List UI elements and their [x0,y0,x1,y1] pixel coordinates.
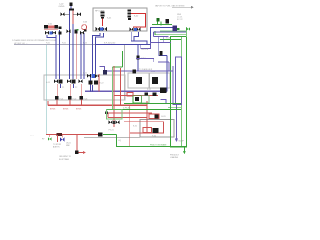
svg-text:— ←: — ← [30,135,34,137]
svg-text:AGE TK: AGE TK [53,146,60,149]
svg-text:4”-PG-301: 4”-PG-301 [123,107,131,109]
svg-text:PV-31: PV-31 [109,130,114,132]
svg-text:OVHD: OVHD [59,6,65,8]
svg-text:P-02: P-02 [73,99,77,101]
svg-text:HP FLR: HP FLR [142,49,149,51]
svg-text:P-32: P-32 [152,135,156,137]
svg-text:E-22: E-22 [100,83,104,85]
svg-text:E-21: E-21 [83,73,87,75]
svg-text:SLOP TANK: SLOP TANK [59,158,70,161]
svg-text:TO FLARE HDR: TO FLARE HDR [139,68,153,71]
svg-text:P2: P2 [75,87,77,89]
svg-text:FI-01: FI-01 [46,43,50,45]
svg-text:8”-P-1021-C30: 8”-P-1021-C30 [104,43,115,45]
svg-text:PROD TO STORAGE: PROD TO STORAGE [150,143,167,146]
svg-text:FI-03: FI-03 [83,43,87,45]
svg-text:FC 22: FC 22 [177,19,183,21]
svg-text:BTMS: BTMS [63,109,69,111]
svg-text:SLOP: SLOP [179,141,185,143]
svg-text:P-03: P-03 [84,99,88,101]
svg-text:BTMS: BTMS [50,109,56,111]
svg-text:E-32: E-32 [133,125,137,127]
svg-text:HP SEP LIQ →: HP SEP LIQ → [14,43,28,45]
svg-text:FI-02: FI-02 [62,43,66,45]
svg-text:P1: P1 [62,87,64,89]
svg-text:P-01: P-01 [60,99,64,101]
svg-text:BTMS: BTMS [76,109,82,111]
svg-text:TK-01: TK-01 [166,37,171,39]
svg-text:LOADING: LOADING [170,156,179,159]
svg-text:P-21: P-21 [147,89,151,91]
svg-text:E-31: E-31 [162,116,166,118]
